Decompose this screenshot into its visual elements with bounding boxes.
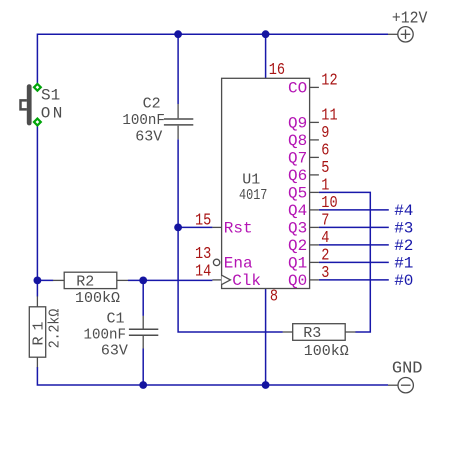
svg-text:ON: ON [41,104,65,122]
svg-text:#4: #4 [394,202,413,220]
S1 terminal top [34,84,41,91]
svg-text:Q3: Q3 [288,220,307,238]
svg-text:2.2kΩ: 2.2kΩ [47,308,64,348]
wire Q3 to net #3 [319,226,389,228]
svg-text:R1: R1 [30,315,47,345]
svg-text:Q1: Q1 [288,255,307,273]
svg-text:Clk: Clk [232,272,261,290]
svg-text:15: 15 [195,210,211,230]
wire top rail from S1 to +12V [37,34,388,86]
svg-text:4017: 4017 [239,188,267,205]
svg-text:S1: S1 [41,87,60,105]
resistor R2 [53,272,128,288]
wire C1 drop from Clk net [142,280,144,316]
pin stub Q0 pin3 [310,279,319,281]
wire R2 right to Clk pin 14 [128,279,212,281]
wire Rst pin 15 branch [178,226,212,228]
wire R2 left [37,279,53,281]
wire R1 bottom to bottom rail [37,367,388,385]
svg-text:#2: #2 [394,237,413,255]
wire Q0 to net #0 [319,279,389,281]
svg-text:GND: GND [392,360,423,379]
pin stub Q7 pin6 [310,156,319,158]
S1 terminal bottom [34,119,41,126]
pin stub Q6 pin5 [310,174,319,176]
capacitor C1 [129,316,158,349]
wire Q2 to net #2 [319,244,389,246]
svg-text:Q9: Q9 [288,115,307,133]
svg-text:63V: 63V [101,343,128,360]
wire pin16 drop to U1 top [265,34,267,78]
wire C2 top branch [177,34,179,104]
svg-text:CO: CO [288,80,307,98]
wire left rail S1 to R1 and bottom rail to GND [36,122,38,296]
pin stub Q4 pin10 [310,209,319,211]
pin stub Q2 pin4 [310,244,319,246]
svg-text:Ena: Ena [224,255,253,273]
svg-text:C2: C2 [143,95,161,112]
switch S1 [21,87,30,123]
svg-text:+12V: +12V [392,8,428,27]
wire Q1 to net #1 [319,261,389,263]
junction at C1/Clk net [139,277,147,285]
svg-text:C1: C1 [107,311,125,328]
svg-text:8: 8 [270,286,278,306]
Clk edge triangle [222,275,231,284]
svg-text:Q8: Q8 [288,132,307,150]
power +12V symbol [388,27,413,42]
svg-text:14: 14 [195,261,211,281]
svg-text:Q7: Q7 [288,150,307,168]
junction at pin16/top rail [262,30,270,38]
pin stub Q1 pin2 [310,261,319,263]
svg-text:Q0: Q0 [288,272,307,290]
svg-text:#0: #0 [394,272,413,290]
svg-text:Q2: Q2 [288,237,307,255]
svg-text:Q4: Q4 [288,202,307,220]
pin stub Q9 pin11 [310,121,319,123]
svg-text:100nF: 100nF [84,327,126,343]
svg-text:12: 12 [321,70,337,90]
svg-text:Q6: Q6 [288,167,307,185]
junction at R1/R2 node [34,277,42,285]
junction at C1 bottom rail [139,381,147,389]
resistor R1 [29,296,45,367]
svg-text:63V: 63V [135,129,162,146]
ground GND symbol [388,378,413,393]
wire Q5 to R3 right [319,192,370,332]
pin stub Q5 pin1 [310,191,319,193]
svg-text:100nF: 100nF [122,112,164,128]
svg-text:U1: U1 [242,172,260,189]
svg-text:Q5: Q5 [288,185,307,203]
wire C1 bottom to bottom rail [142,349,144,386]
pin stub Q8 pin9 [310,139,319,141]
svg-text:16: 16 [269,60,285,80]
capacitor C2 [164,104,193,139]
svg-text:100kΩ: 100kΩ [304,343,349,360]
wire C2 bottom to Rst node down to R3 row [178,139,283,332]
junction at C2/top rail [174,30,182,38]
pin stub CO pin12 [310,86,319,88]
svg-text:Rst: Rst [224,220,253,238]
svg-text:100kΩ: 100kΩ [75,290,120,307]
pin stub Rst pin15 [212,226,221,228]
junction at Rst branch [174,224,182,232]
resistor R3 [283,324,356,341]
svg-text:R2: R2 [76,274,94,291]
svg-text:#3: #3 [394,220,413,238]
svg-text:3: 3 [321,263,329,283]
svg-text:#1: #1 [394,255,413,273]
pin stub Q3 pin7 [310,226,319,228]
wire pin8 drop to bottom rail [265,289,267,386]
pin stub Clk pin14 [212,279,221,281]
op IC U1 4017 box [222,78,310,288]
Ena inverted pin bubble [213,259,219,265]
wire Q4 to net #4 [319,209,389,211]
svg-text:R3: R3 [303,325,321,342]
junction at pin8 bottom rail [262,381,270,389]
